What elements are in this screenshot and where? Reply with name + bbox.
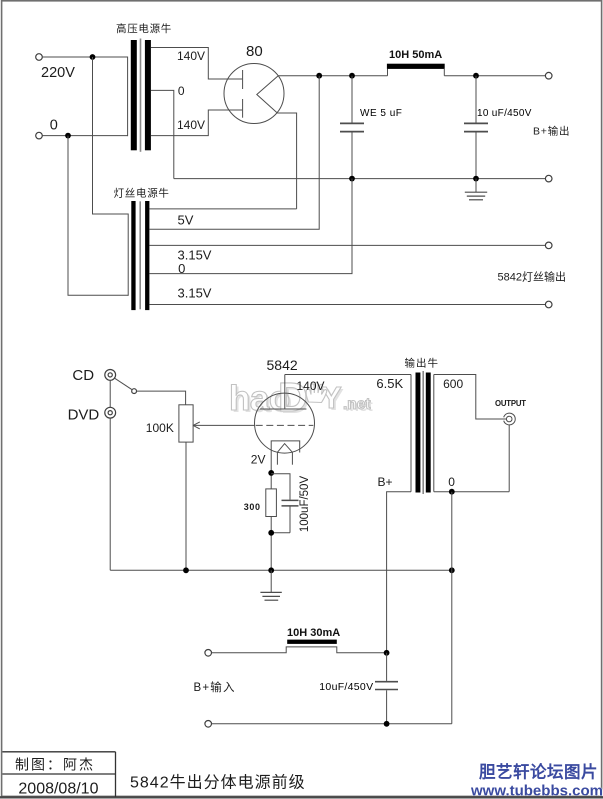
- terminal 220V: [36, 54, 43, 61]
- label 10H 50mA: [389, 49, 442, 61]
- ground (power supply): [465, 179, 487, 200]
- junction cathode ground: [268, 567, 274, 573]
- CD input jack: [105, 370, 116, 381]
- label CD: [72, 367, 94, 384]
- junction cap bottom: [384, 721, 390, 727]
- svg-text:灯丝电源牛: 灯丝电源牛: [114, 187, 170, 200]
- rectifier tube U1 envelope: [224, 64, 284, 124]
- svg-text:10 uF/450V: 10 uF/450V: [477, 108, 532, 119]
- label 0 (mains): [50, 118, 58, 134]
- junction WE cap top: [349, 73, 355, 79]
- label 300: [244, 502, 261, 512]
- label 5V: [178, 213, 194, 228]
- svg-text:0: 0: [178, 261, 185, 276]
- svg-text:600: 600: [443, 377, 463, 391]
- label 100K: [146, 421, 174, 435]
- drawing title 5842牛出分体电源前级: [130, 774, 306, 792]
- wire secondary bottom: [434, 491, 509, 493]
- svg-text:WE 5 uF: WE 5 uF: [360, 108, 402, 119]
- junction cathode node: [268, 470, 274, 476]
- tube 5842 plate: [260, 408, 306, 410]
- svg-text:www.tubebbs.com: www.tubebbs.com: [470, 783, 603, 799]
- potentiometer 100K body: [179, 405, 193, 442]
- label 高压电源牛 (HV power transformer): [116, 22, 172, 35]
- label 140V (bottom): [177, 118, 205, 132]
- label 10uF/450V (bottom): [319, 681, 373, 693]
- svg-text:6.5K: 6.5K: [376, 376, 403, 391]
- tube 5842 plate lead: [284, 375, 286, 410]
- rectifier plate 1: [242, 70, 244, 89]
- junction cap/resistor bottom: [268, 530, 274, 536]
- wire cap bottom to resistor: [271, 532, 290, 534]
- svg-text:2008/08/10: 2008/08/10: [18, 781, 98, 798]
- label 2V: [251, 453, 266, 467]
- B- input terminal: [205, 721, 212, 728]
- junction pot ground: [183, 567, 189, 573]
- label 10 uF/450V: [477, 108, 532, 119]
- rectifier plate 2: [242, 99, 244, 118]
- transformer T2 secondary winding bar: [145, 201, 149, 310]
- svg-text:140V: 140V: [177, 49, 205, 63]
- ground (preamp): [260, 570, 281, 600]
- tube 5842 envelope: [255, 393, 315, 453]
- wire resistor bottom: [270, 517, 272, 571]
- svg-text:0: 0: [178, 84, 185, 98]
- selector switch arm: [115, 378, 132, 389]
- svg-text:B+输出: B+输出: [533, 125, 570, 138]
- wire 0 to filament transformer primary: [68, 136, 128, 296]
- wire primary bottom to B+ feed: [387, 492, 411, 653]
- junction on 220V wire: [90, 54, 96, 60]
- label 0 (HV center tap): [178, 84, 185, 98]
- wire switch to volume pot: [137, 391, 186, 405]
- label 220V: [41, 65, 75, 81]
- selector switch contact: [132, 389, 137, 394]
- wire cathode down: [270, 453, 272, 489]
- svg-text:300: 300: [244, 502, 261, 512]
- wire rectifier output to B+ rail: [278, 75, 387, 77]
- label 制图：阿杰: [15, 757, 95, 773]
- wire output jack ground: [508, 425, 510, 492]
- label B+ (output transformer): [378, 475, 393, 489]
- wire 5V tap b to B+ rail: [149, 76, 319, 230]
- transformer T3 secondary connector: [433, 375, 435, 492]
- label 0 (filament center tap): [178, 261, 185, 276]
- wire choke to B+ output: [444, 75, 545, 77]
- choke L1 left riser: [387, 69, 389, 76]
- output jack: [504, 413, 516, 425]
- bottom ground rail: [212, 723, 452, 725]
- filament output terminal a: [545, 242, 552, 249]
- transformer T3 secondary winding bar: [426, 373, 431, 493]
- svg-text:5842牛出分体电源前级: 5842牛出分体电源前级: [130, 774, 306, 792]
- svg-text:2V: 2V: [251, 453, 266, 467]
- label 2008/08/10: [18, 781, 98, 798]
- transformer T2 primary winding bar: [131, 201, 135, 310]
- preamp ground rail: [110, 569, 452, 571]
- transformer T1 primary connector: [127, 57, 129, 137]
- svg-text:100uF/50V: 100uF/50V: [299, 476, 311, 533]
- tube 5842 cathode top: [271, 441, 300, 453]
- svg-text:B+输入: B+输入: [194, 680, 236, 694]
- label DVD: [68, 406, 100, 423]
- wire secondary to output jack: [434, 375, 507, 420]
- svg-text:10H 50mA: 10H 50mA: [389, 49, 442, 61]
- label 0 (secondary): [448, 475, 455, 489]
- svg-text:10H 30mA: 10H 30mA: [287, 627, 340, 639]
- capacitor WE 5uF: [340, 76, 364, 179]
- transformer T3 primary connector: [410, 375, 412, 492]
- svg-text:140V: 140V: [297, 379, 325, 393]
- label 6.5K: [376, 376, 403, 391]
- svg-text:10uF/450V: 10uF/450V: [319, 681, 373, 693]
- label 5842: [267, 357, 298, 373]
- junction 10uF cap top: [473, 73, 479, 79]
- label 3.15V (bottom): [178, 286, 212, 301]
- wire cathode to bypass cap: [271, 474, 290, 500]
- label 80 (rectifier tube): [246, 43, 263, 60]
- resistor 300 body: [266, 489, 277, 517]
- junction rail to B-: [449, 567, 455, 573]
- label 140V (top): [177, 49, 205, 63]
- pot wiper arrow to grid: [193, 422, 255, 429]
- label OUTPUT: [495, 399, 526, 408]
- wire 140V bottom tap to rectifier plate: [151, 110, 242, 136]
- svg-text:.net: .net: [343, 396, 371, 413]
- wire 140V top tap to rectifier plate: [151, 48, 242, 80]
- B- output terminal: [545, 175, 552, 182]
- svg-text:220V: 220V: [41, 65, 75, 81]
- choke L1 right riser: [443, 69, 445, 76]
- wire 220V to transformer primary: [42, 56, 128, 58]
- rectifier cathode V: [257, 76, 278, 114]
- svg-text:0: 0: [448, 475, 455, 489]
- tube 5842 grid (dashed): [256, 424, 314, 426]
- wire 220V to filament transformer primary: [93, 57, 129, 214]
- B+ input terminal: [205, 650, 212, 657]
- label 100uF/50V (rotated): [299, 476, 311, 533]
- transformer T2 core: [139, 201, 141, 309]
- wire 3.15V tap a to output: [149, 244, 545, 246]
- filament output terminal b: [545, 301, 552, 308]
- wire secondary ground down: [451, 492, 453, 724]
- svg-text:制图：阿杰: 制图：阿杰: [15, 757, 95, 773]
- tube 5842 filament: [277, 444, 292, 465]
- transformer T3 core: [422, 371, 424, 494]
- watermark haoDIY.net: [229, 374, 373, 422]
- label 5842灯丝输出: [498, 270, 566, 284]
- terminal 0 (mains): [36, 132, 43, 139]
- label B+输出: [533, 125, 570, 138]
- svg-text:5V: 5V: [178, 213, 194, 228]
- junction B+ filament tap: [316, 73, 322, 79]
- wire DVD jack to ground rail: [109, 418, 111, 570]
- capacitor 10uF/450V (bottom): [375, 653, 398, 724]
- wire B+ input to choke: [212, 647, 387, 653]
- wire 0 to transformer primary: [42, 135, 128, 137]
- transformer T1 core: [140, 39, 142, 152]
- capacitor 10uF/450V: [464, 76, 488, 179]
- svg-text:5842灯丝输出: 5842灯丝输出: [498, 270, 566, 284]
- svg-text:输出牛: 输出牛: [405, 357, 440, 370]
- choke L2 bar: [287, 640, 337, 644]
- DVD input jack: [105, 407, 116, 418]
- junction secondary ground: [449, 489, 455, 495]
- label 10H 30mA: [287, 627, 340, 639]
- svg-text:B+: B+: [378, 475, 393, 489]
- wire 5V tap a to rectifier cathode: [149, 208, 296, 210]
- B+ output terminal top: [545, 72, 552, 79]
- junction WE cap bottom: [349, 176, 355, 182]
- label 灯丝电源牛 (filament transformer): [114, 187, 170, 200]
- svg-text:高压电源牛: 高压电源牛: [116, 22, 172, 35]
- wire tube plate to output transformer: [285, 374, 411, 376]
- label WE 5 uF: [360, 108, 402, 119]
- transformer T1 primary winding bar: [131, 40, 137, 150]
- title block: [2, 752, 115, 797]
- B- rail: [174, 178, 546, 180]
- capacitor 100uF/50V: [282, 500, 299, 532]
- wire CD jack to DVD jack: [109, 380, 111, 407]
- svg-text:3.15V: 3.15V: [178, 286, 212, 301]
- watermark www.tubebbs.com: [470, 783, 603, 799]
- wire pot bottom to ground rail: [185, 442, 187, 570]
- wire 3.15V tap b to output: [149, 304, 545, 306]
- wire cathode to 5V winding: [278, 113, 297, 209]
- junction ground / 10uF bottom: [473, 176, 479, 182]
- choke L1 bar: [387, 64, 445, 69]
- transformer T3 primary winding bar: [416, 373, 421, 493]
- svg-text:OUTPUT: OUTPUT: [495, 399, 526, 408]
- label 600: [443, 377, 463, 391]
- watermark 胆艺轩论坛图片: [479, 762, 598, 782]
- svg-text:80: 80: [246, 43, 263, 60]
- label B+输入: [194, 680, 236, 694]
- transformer T1 secondary winding bar: [145, 40, 151, 150]
- label 3.15V (top): [178, 248, 212, 263]
- svg-text:5842: 5842: [267, 357, 298, 373]
- transformer T2 primary connector: [127, 214, 129, 296]
- label 输出牛 (output transformer): [405, 357, 440, 370]
- svg-text:0: 0: [50, 118, 58, 134]
- wire filament center tap 0 to ground rail: [149, 179, 352, 274]
- svg-text:CD: CD: [72, 367, 94, 384]
- junction on 0 wire: [65, 133, 71, 139]
- wire HV center tap 0: [151, 90, 174, 178]
- svg-text:140V: 140V: [177, 118, 205, 132]
- svg-text:100K: 100K: [146, 421, 174, 435]
- junction choke out: [384, 650, 390, 656]
- svg-text:DVD: DVD: [68, 406, 100, 423]
- svg-text:胆艺轩论坛图片: 胆艺轩论坛图片: [479, 762, 598, 782]
- label 140V (plate): [297, 379, 325, 393]
